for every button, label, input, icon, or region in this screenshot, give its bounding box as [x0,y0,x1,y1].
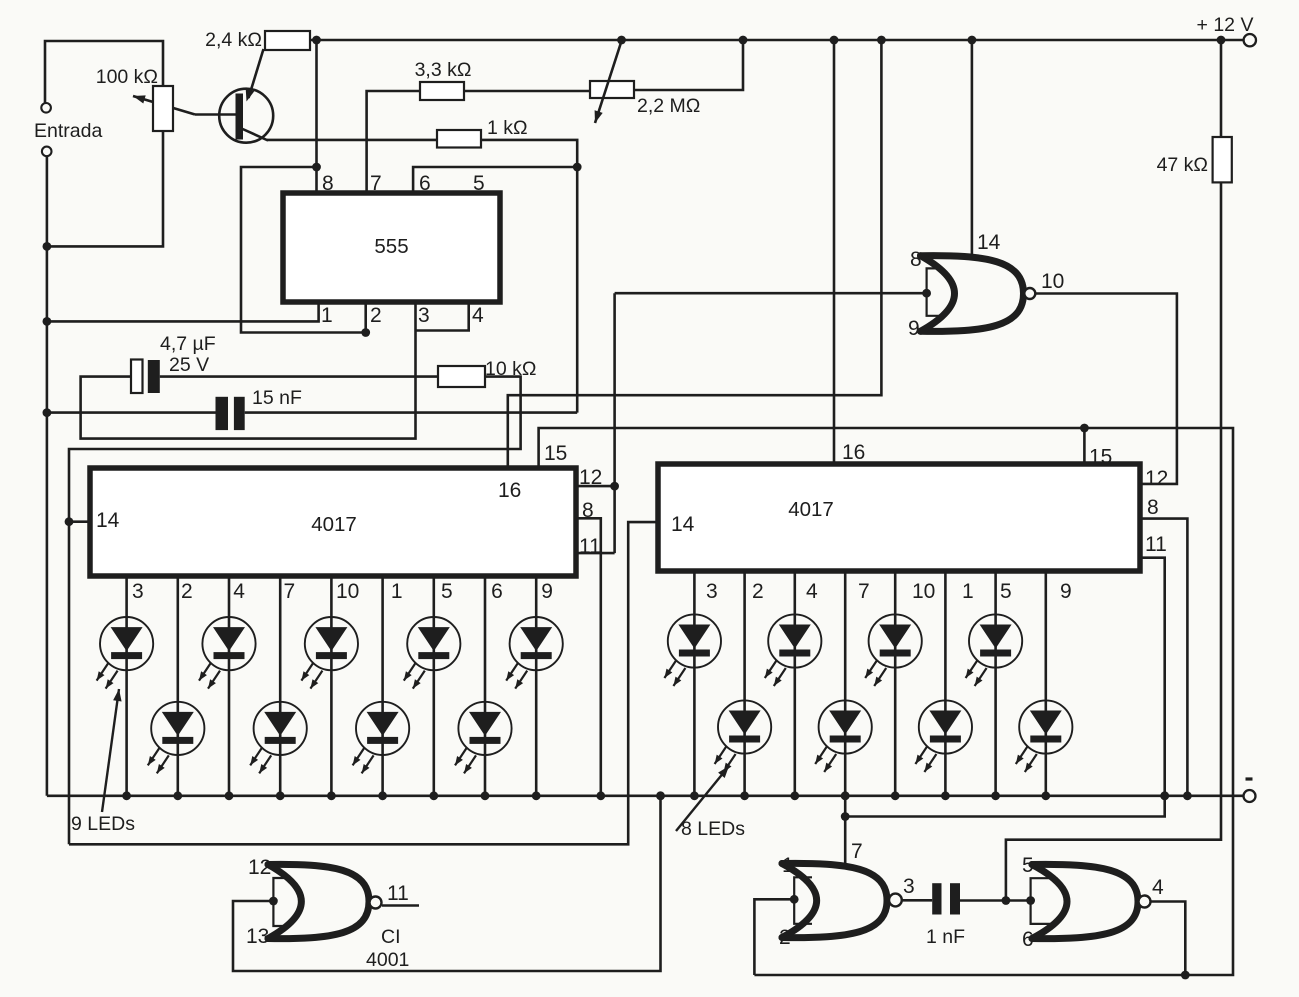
negative terminal [1244,790,1256,802]
junction dot pin8/bracket [312,163,321,172]
IC U3 4017 box [90,468,576,576]
wire 555 pin4 bracket to pin3 [416,302,469,331]
IC U4 4017 box [658,464,1140,571]
wire U5a output to C3 [902,899,932,902]
NOR1 output bubble [1024,288,1035,299]
wire 4017L output column 7 [279,576,282,796]
emitter arrow (PNP) [246,89,255,102]
svg-text:1 kΩ: 1 kΩ [487,117,528,139]
svg-text:2: 2 [181,580,193,603]
arrow 2,2M wiper [595,41,622,123]
wire NOR2 input from negative rail [233,796,661,971]
svg-text:4: 4 [233,580,245,603]
junction dot left rail / pin1 wire [43,317,52,326]
svg-text:+ 12 V: + 12 V [1197,14,1254,36]
wire NOR1 output to 4017R pin12 [1035,294,1177,484]
transistor Q1 base bar [236,94,244,140]
svg-text:15 nF: 15 nF [252,387,302,409]
wire 4017R output column 7 [844,571,847,796]
resistor R 47 k&#937; [1213,137,1232,182]
wire 2,2M to +12V rail [634,40,743,90]
wire 4017R output column 10 [894,571,897,796]
wire 4017R pin8 down to rail [1140,519,1187,796]
wire 555 pin3 down-left-up to C1 [81,302,416,439]
svg-text:2,2 MΩ: 2,2 MΩ [637,95,700,117]
wire collector to R 1k [267,139,437,142]
LED D2 (left bank bottom row) [151,702,204,755]
wire 4017R pin11 down [845,558,1164,817]
junction dot gate pin7 tap [841,812,850,821]
svg-text:2: 2 [779,926,791,949]
wire 4017L output column 2 [177,576,180,796]
wire C1 to R 10k [160,375,438,378]
node Entrada terminal upper [41,103,51,113]
wire 4017R output column 9 [1045,571,1048,796]
U5b output bubble [1139,896,1151,908]
svg-text:9: 9 [541,580,553,603]
wire 4017R output column 4 [793,571,796,796]
NOR1 input bracket [927,268,943,315]
LED D3 (left bank top row) [202,617,255,670]
capacitor C3 1 nF plate b [950,883,960,914]
svg-text:13: 13 [246,925,269,948]
junction dot pin2 [361,328,370,337]
op NOR gate U2a body [921,256,1024,332]
svg-text:3: 3 [132,580,144,603]
svg-text:16: 16 [498,479,521,502]
svg-text:2: 2 [370,304,382,327]
U5b input bracket [1031,878,1058,924]
junction dot node X [573,163,582,172]
junction dot rail/15nF [43,408,52,417]
wire 4017L output column 10 [330,576,333,796]
junction dot 4017L pin12 [610,482,619,491]
capacitor C2 15 nF plate a [216,397,229,430]
capacitor C1 4,7 uF plate - [148,360,160,393]
resistor R 3,3 k&#937; [420,82,464,100]
svg-text:11: 11 [387,882,409,905]
svg-text:25 V: 25 V [169,354,209,376]
svg-text:9: 9 [908,317,920,340]
wire 4017L output column 5 [432,576,435,796]
trimpot R 2,2 M&#937; [590,81,634,98]
svg-text:15: 15 [1089,446,1112,469]
wire 555 pin1 to left rail [47,302,319,321]
LED (right bank bottom row col 6) [919,700,972,753]
svg-text:7: 7 [858,580,870,603]
svg-text:12: 12 [579,466,602,489]
junction dot bottom bus [1181,971,1190,980]
svg-text:6: 6 [419,172,431,195]
op NOR gate U5b body [1032,864,1138,938]
LED D8 (left bank bottom row) [458,702,511,755]
svg-text:8: 8 [910,248,922,271]
wire 47k down to 1nF node [1006,182,1221,900]
wire 4017R output column 3 [693,571,696,796]
svg-text:4: 4 [472,304,484,327]
svg-text:4001: 4001 [366,949,409,971]
svg-text:5: 5 [1022,854,1034,877]
NOR2 input bracket [273,878,289,926]
wire gate pin7 from rail [844,796,847,866]
junction dot pin14 left [65,517,74,526]
svg-text:15: 15 [544,442,567,465]
NOR2 output bubble [370,897,382,909]
wire bracket pin8 to pin2 [241,167,366,333]
wire 10k to pin14 rail [69,377,521,845]
LED D6 (left bank bottom row) [356,702,409,755]
capacitor C1 4,7 uF plate + [131,360,143,394]
junction dot pin11 wire at rail [1160,791,1169,800]
LED (right bank bottom row col 2) [718,700,771,753]
wire node to 4017L pins 12/11 [613,293,616,553]
resistor R 10 k&#937; [438,366,485,387]
svg-text:47 kΩ: 47 kΩ [1157,154,1208,176]
wire 4017L pin14 stub [69,520,90,523]
wire 4017R pin16 riser [833,40,836,464]
wire 4017L pin16 to +12V [508,40,882,468]
junction dot 47k tap [1002,896,1011,905]
wire 4017R pin15 stub [1083,428,1086,465]
wire 555 pin2 stub [364,302,367,333]
svg-text:2: 2 [752,580,764,603]
LED D5 (left bank top row) [305,617,358,670]
svg-text:8: 8 [1147,496,1159,519]
wire Entrada loop top [45,41,163,104]
svg-text:5: 5 [441,580,453,603]
wire bottom negative rail [47,794,1244,797]
svg-text:555: 555 [374,235,408,258]
svg-text:12: 12 [248,856,271,879]
arrow 8 LEDs [676,766,729,831]
junction dot gate7/rail [841,791,850,800]
label minus [1246,777,1253,780]
svg-text:5: 5 [473,172,485,195]
svg-text:10: 10 [912,580,935,603]
LED D7 (left bank top row) [407,617,460,670]
LED D9 (left bank top row) [510,617,563,670]
wire 4017L output column 3 [125,576,128,796]
svg-text:4: 4 [806,580,818,603]
LED D4 (left bank bottom row) [254,702,307,755]
arrow 9 LEDs [102,689,119,812]
wire 1k to node X (down) [481,140,577,413]
wire NOR1 input net [615,292,927,295]
wire 4017R output column 5 [994,571,997,796]
wire left ground rail (Entrada down) [46,156,49,796]
junction dot Entrada loop [43,242,52,251]
wire transistor emitter to R2,4k [249,49,264,98]
U5a output bubble [889,894,902,907]
wire base to potentiometer wiper [195,113,237,116]
svg-text:3: 3 [903,875,915,898]
svg-text:10: 10 [1041,270,1064,293]
svg-text:2,4 kΩ: 2,4 kΩ [205,29,262,51]
wire 15nF right to node X [245,411,578,414]
wire 4017R output column 1 [944,571,947,796]
IC U1 555 box [283,193,500,302]
svg-text:6: 6 [1022,928,1034,951]
wire 4017L output column 9 [535,576,538,796]
junction dot U5a input [790,895,799,904]
potentiometer R 100 k&#937; [153,86,173,131]
svg-text:7: 7 [284,580,296,603]
capacitor C3 1 nF plate a [932,883,941,914]
svg-text:4017: 4017 [788,498,834,521]
svg-text:11: 11 [579,535,601,558]
wire 4017R pin14 to 4017L pin14 [69,522,658,844]
svg-text:4,7 µF: 4,7 µF [160,333,216,355]
wire C3 to U5b input [960,899,1031,902]
LED D1 (left bank top row) [100,617,153,670]
junction dot U5b input [1026,896,1035,905]
wire 47k top [1220,40,1223,137]
svg-text:8: 8 [322,172,334,195]
svg-text:12: 12 [1145,467,1168,490]
wire NOR2 output stub pin 11 [382,904,419,907]
wire 4017L output column 1 [381,576,384,796]
svg-text:1: 1 [962,580,974,603]
svg-text:9 LEDs: 9 LEDs [71,813,135,835]
svg-text:CI: CI [381,926,401,948]
LED (right bank top row col 3) [768,614,821,667]
junction dot 4017R pin15 [1080,424,1089,433]
wire 555 pin7 riser and 3,3k feed [367,91,420,193]
junction dot NOR2 input [269,897,278,906]
wire 15nF left to rail [47,411,216,414]
wire Entrada loop bottom [47,131,163,246]
resistor R 2,4 k&#937; [265,31,310,50]
svg-text:7: 7 [851,840,863,863]
svg-text:14: 14 [96,509,120,532]
capacitor C2 15 nF plate b [234,397,245,430]
wire 4017L pin11 stub [576,552,615,555]
wire 3,3k to 2,2M [464,90,590,93]
LED (right bank bottom row col 4) [819,700,872,753]
wiper arrow of potentiometer [133,96,195,115]
svg-text:3: 3 [418,304,430,327]
svg-text:3: 3 [706,580,718,603]
svg-text:1: 1 [782,854,794,877]
LED (right bank bottom row col 8) [1019,700,1072,753]
LED (right bank top row col 1) [668,614,721,667]
wire NOR1 pin14 riser [971,40,974,257]
svg-text:14: 14 [671,513,695,536]
junction dot negative rail feed [656,791,665,800]
svg-text:4: 4 [1152,876,1164,899]
junction dots on negative rail [122,791,131,800]
svg-text:100 kΩ: 100 kΩ [96,66,158,88]
svg-text:5: 5 [1000,580,1012,603]
+12V terminal [1244,34,1256,46]
svg-text:1: 1 [391,580,403,603]
svg-text:7: 7 [370,172,382,195]
wire 4017R output column 2 [743,571,746,796]
svg-text:1 nF: 1 nF [926,926,965,948]
node Entrada terminal lower [42,147,52,157]
wire U5b output to bottom bus [1151,902,1186,976]
wire 4017L pin8 down to rail [576,518,601,796]
svg-text:6: 6 [491,580,503,603]
wire +12V top rail [310,39,1244,42]
svg-text:3,3 kΩ: 3,3 kΩ [415,59,472,81]
svg-text:8 LEDs: 8 LEDs [681,818,745,840]
svg-text:Entrada: Entrada [34,120,102,142]
resistor R 1 k&#937; [437,130,481,148]
junction dots on +12V rail [312,36,321,45]
svg-text:16: 16 [842,441,865,464]
wire U5a input from bottom bus [754,899,794,975]
svg-text:4017: 4017 [311,513,357,536]
svg-text:11: 11 [1145,533,1167,556]
svg-text:9: 9 [1060,580,1072,603]
wire 555 pin8 riser [315,40,318,193]
wire 4017L pin12 stub [576,485,615,488]
wire 4017L output column 4 [228,576,231,796]
junction dot NOR1 input [922,289,931,298]
wire transistor collector [242,129,269,141]
svg-text:10: 10 [336,580,359,603]
transistor Q1 body [219,89,273,143]
wire 4017L output column 6 [484,576,487,796]
op NOR gate U2b body [268,864,369,938]
svg-text:1: 1 [321,304,333,327]
LED (right bank top row col 5) [869,614,922,667]
svg-text:14: 14 [977,231,1001,254]
wire 555 pin6 to node X [413,167,577,193]
U5a input bracket [794,877,812,924]
wire pin15 bus [539,428,1233,975]
op NOR gate U5a body [782,863,887,937]
LED (right bank top row col 7) [969,614,1022,667]
